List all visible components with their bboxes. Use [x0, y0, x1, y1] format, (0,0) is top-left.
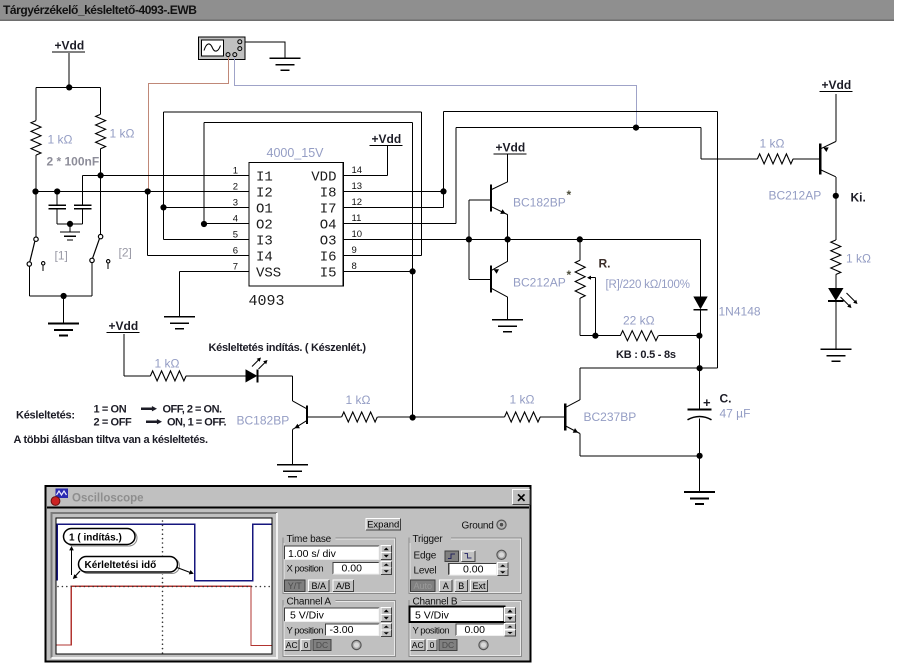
svg-text:Channel A: Channel A	[287, 596, 332, 607]
svg-text:AC: AC	[412, 640, 424, 650]
svg-text:OFF, 2 = ON.: OFF, 2 = ON.	[163, 404, 223, 416]
svg-text:1 kΩ: 1 kΩ	[110, 127, 135, 141]
svg-text:Y/T: Y/T	[288, 581, 303, 591]
svg-text:VSS: VSS	[256, 265, 281, 281]
svg-text:O1: O1	[256, 201, 273, 217]
svg-text:0.00: 0.00	[342, 563, 363, 575]
svg-text:47 µF: 47 µF	[720, 407, 751, 421]
svg-text:O3: O3	[320, 233, 337, 249]
svg-text:Ext: Ext	[472, 581, 486, 591]
svg-text:C.: C.	[720, 392, 732, 406]
svg-text:Auto: Auto	[413, 581, 432, 591]
svg-text:I2: I2	[256, 185, 273, 201]
svg-text:5: 5	[233, 229, 238, 240]
svg-text:+Vdd: +Vdd	[822, 78, 852, 92]
svg-text:Y position: Y position	[287, 625, 324, 636]
svg-text:Edge: Edge	[414, 551, 437, 562]
svg-text:0.00: 0.00	[463, 564, 484, 576]
svg-text:1N4148: 1N4148	[719, 305, 761, 319]
svg-text:+Vdd: +Vdd	[55, 39, 85, 53]
svg-text:4093: 4093	[249, 293, 285, 310]
svg-text:DC: DC	[442, 640, 454, 650]
svg-text:[1]: [1]	[55, 249, 68, 263]
svg-text:A/B: A/B	[336, 581, 351, 591]
svg-text:2 * 100nF: 2 * 100nF	[47, 155, 100, 169]
svg-text:12: 12	[352, 197, 363, 208]
svg-text:Ki.: Ki.	[851, 191, 866, 205]
svg-text:-3.00: -3.00	[330, 624, 354, 636]
svg-text:11: 11	[352, 213, 362, 224]
svg-text:O2: O2	[256, 217, 273, 233]
svg-text:I7: I7	[320, 201, 337, 217]
svg-text:1.00 s/ div: 1.00 s/ div	[288, 548, 337, 560]
svg-text:0: 0	[430, 640, 435, 650]
svg-text:B/A: B/A	[311, 581, 326, 591]
svg-text:1 kΩ: 1 kΩ	[155, 357, 180, 371]
svg-text:1 kΩ: 1 kΩ	[346, 393, 371, 407]
svg-text:5 V/Div: 5 V/Div	[290, 610, 325, 622]
svg-text:1 kΩ: 1 kΩ	[48, 133, 73, 147]
svg-text:[2]: [2]	[119, 246, 132, 260]
svg-text:Késleltetés:: Késleltetés:	[16, 410, 75, 422]
svg-text:Kérleltetési idő: Kérleltetési idő	[85, 560, 157, 571]
svg-text:9: 9	[352, 245, 357, 256]
svg-text:Y position: Y position	[413, 625, 450, 636]
svg-text:*: *	[567, 188, 572, 202]
svg-text:13: 13	[352, 181, 363, 192]
svg-text:1 kΩ: 1 kΩ	[846, 252, 871, 266]
svg-text:1: 1	[233, 165, 238, 176]
svg-text:+: +	[703, 395, 711, 410]
svg-text:5 V/Div: 5 V/Div	[415, 610, 450, 622]
svg-text:2 = OFF: 2 = OFF	[94, 417, 133, 429]
svg-text:I4: I4	[256, 249, 273, 265]
svg-text:BC212AP: BC212AP	[769, 189, 822, 203]
svg-text:I5: I5	[320, 265, 337, 281]
svg-text:+Vdd: +Vdd	[372, 132, 402, 146]
svg-text:B: B	[458, 581, 464, 591]
svg-text:VDD: VDD	[311, 169, 336, 185]
svg-text:8: 8	[352, 261, 357, 272]
svg-text:0: 0	[304, 640, 309, 650]
svg-text:7: 7	[233, 261, 238, 272]
svg-text:O4: O4	[320, 217, 337, 233]
svg-text:3: 3	[233, 197, 238, 208]
svg-text:Level: Level	[414, 566, 437, 577]
svg-text:I3: I3	[256, 233, 273, 249]
svg-text:A: A	[443, 581, 449, 591]
svg-text:[R]/220 kΩ/100%: [R]/220 kΩ/100%	[606, 279, 690, 291]
svg-text:Expand: Expand	[367, 519, 399, 530]
svg-text:1 ( indítás.): 1 ( indítás.)	[69, 532, 122, 543]
svg-text:Time base: Time base	[287, 534, 332, 545]
svg-text:A többi állásban tiltva van a: A többi állásban tiltva van a késlelteté…	[14, 434, 208, 446]
svg-text:BC237BP: BC237BP	[584, 410, 637, 424]
svg-text:4: 4	[233, 213, 238, 224]
svg-text:KB : 0.5 - 8s: KB : 0.5 - 8s	[616, 349, 676, 361]
svg-text:*: *	[567, 268, 572, 282]
svg-text:Oscilloscope: Oscilloscope	[72, 493, 144, 505]
svg-text:+Vdd: +Vdd	[496, 141, 526, 155]
svg-text:1 kΩ: 1 kΩ	[760, 137, 785, 151]
svg-text:1 = ON: 1 = ON	[94, 404, 127, 416]
svg-text:✕: ✕	[516, 491, 526, 505]
svg-text:+Vdd: +Vdd	[109, 319, 139, 333]
svg-text:6: 6	[233, 245, 238, 256]
svg-text:I8: I8	[320, 185, 337, 201]
svg-text:BC182BP: BC182BP	[237, 414, 290, 428]
svg-text:Késleltetés indítás. ( Készenl: Késleltetés indítás. ( Készenlét.)	[209, 342, 367, 354]
svg-text:4000_15V: 4000_15V	[267, 146, 325, 160]
svg-text:X position: X position	[287, 564, 324, 575]
svg-text:R.: R.	[599, 257, 611, 271]
svg-text:DC: DC	[316, 640, 328, 650]
svg-text:14: 14	[352, 165, 363, 176]
svg-text:22 kΩ: 22 kΩ	[623, 314, 655, 328]
svg-text:BC212AP: BC212AP	[513, 276, 566, 290]
svg-text:0.00: 0.00	[465, 624, 486, 636]
svg-text:I6: I6	[320, 249, 337, 265]
svg-text:1 kΩ: 1 kΩ	[510, 393, 535, 407]
svg-text:10: 10	[352, 229, 363, 240]
svg-text:2: 2	[233, 181, 238, 192]
svg-text:ON, 1 = OFF.: ON, 1 = OFF.	[167, 417, 227, 429]
svg-text:I1: I1	[256, 169, 273, 185]
svg-text:BC182BP: BC182BP	[513, 196, 566, 210]
svg-text:Ground: Ground	[462, 520, 494, 531]
svg-text:AC: AC	[286, 640, 298, 650]
svg-text:Tárgyérzékelő_késleltető-4093-: Tárgyérzékelő_késleltető-4093-.EWB	[3, 3, 197, 17]
svg-text:Trigger: Trigger	[413, 534, 444, 545]
